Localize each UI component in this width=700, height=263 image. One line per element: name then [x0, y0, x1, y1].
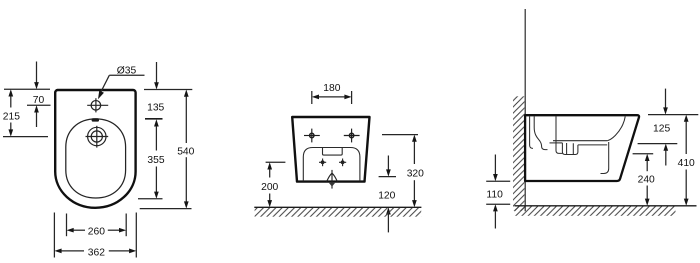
- bowl center crosshair: [86, 126, 109, 148]
- svg-text:362: 362: [88, 247, 105, 258]
- drain pipe: [601, 142, 609, 174]
- bowl back slope: [534, 116, 547, 149]
- dim 125: [665, 89, 667, 109]
- dim 200: [266, 161, 286, 163]
- floor hatching: [515, 207, 676, 216]
- mounting hole right: [344, 129, 360, 143]
- small fixing hole left: [319, 159, 326, 167]
- dim 135: [144, 89, 192, 91]
- dims 260/362 extension lines: [53, 213, 55, 258]
- svg-text:70: 70: [33, 95, 45, 106]
- svg-text:320: 320: [407, 169, 424, 180]
- dim 355: [154, 119, 159, 126]
- nozzle shelf right: [578, 144, 607, 146]
- dim 260: [67, 228, 74, 233]
- middle floor hatching: [255, 208, 422, 217]
- mounting hole left: [304, 129, 320, 143]
- dim 120: [379, 176, 396, 178]
- dim 180: [311, 91, 313, 104]
- svg-text:200: 200: [261, 182, 278, 193]
- svg-text:125: 125: [653, 123, 670, 134]
- bowl ellipse: [66, 119, 126, 198]
- small fixing hole right: [339, 159, 346, 167]
- svg-text:410: 410: [678, 158, 695, 169]
- middle floor line: [254, 206, 421, 208]
- dim 110: [486, 180, 510, 182]
- drain outlet axis line: [331, 170, 333, 189]
- extension line top (125/410): [648, 114, 698, 116]
- bidet front outline: [292, 117, 369, 182]
- nozzle inner walls: [567, 143, 574, 155]
- rim channel back left: [530, 116, 533, 148]
- wall hatching: [513, 96, 524, 211]
- dim 70: [4, 88, 50, 90]
- extension line bowl floor (125): [638, 143, 678, 145]
- hole crosshair (O35): [87, 98, 108, 112]
- svg-text:540: 540: [177, 147, 194, 158]
- dim 410: [684, 115, 689, 122]
- bidet top-view outline: [55, 90, 135, 208]
- dim 240: [645, 154, 650, 161]
- dim 362: [54, 249, 61, 254]
- svg-text:180: 180: [323, 83, 340, 94]
- bowl front curve: [607, 117, 625, 141]
- drain outlet dome: [327, 173, 338, 181]
- bowl back wall: [556, 116, 562, 153]
- dim 320: [382, 134, 418, 136]
- bidet side outline: [525, 115, 639, 181]
- svg-text:110: 110: [486, 189, 503, 200]
- dim 540: [184, 90, 189, 97]
- svg-text:135: 135: [147, 102, 164, 113]
- wall line: [524, 9, 526, 211]
- drain stub below edge: [329, 183, 335, 187]
- svg-text:215: 215: [3, 111, 20, 122]
- inner bowl arch: [303, 148, 360, 182]
- extension line nozzle bottom (240): [633, 153, 654, 155]
- nozzle shelf left: [550, 142, 563, 144]
- svg-text:355: 355: [147, 155, 164, 166]
- svg-text:120: 120: [378, 191, 395, 202]
- inlet dash on bowl rim: [92, 118, 99, 121]
- dim 215: [8, 89, 13, 96]
- floor line: [515, 205, 697, 207]
- arch notch: [323, 148, 343, 156]
- svg-text:260: 260: [88, 227, 105, 238]
- jet nozzle: [562, 143, 578, 155]
- svg-text:240: 240: [638, 175, 655, 186]
- bowl floor line: [553, 140, 607, 142]
